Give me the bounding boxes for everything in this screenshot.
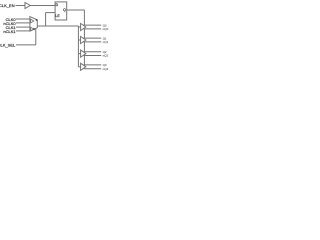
wire CLK_EN to buffer — [16, 5, 26, 7]
net label Q0 — [103, 23, 107, 27]
svg-text:CLK_SEL: CLK_SEL — [0, 43, 16, 48]
net label nQ0 — [103, 27, 109, 31]
wire CLK_SEL horizontal — [16, 44, 36, 46]
net label nCLK0 — [3, 21, 16, 26]
wire nQ1 output — [84, 41, 102, 43]
svg-text:nQ2: nQ2 — [103, 54, 109, 58]
net label Q1 — [103, 36, 107, 40]
driver U4 triangle — [81, 23, 86, 30]
wire nQ0 output — [84, 28, 102, 30]
receiver A inside mux — [31, 19, 34, 23]
wire stub to driver 3 — [78, 53, 80, 55]
mux input 0 label — [36, 18, 38, 22]
wire nCLK0 to mux — [16, 22, 30, 24]
net label CLK0 — [6, 17, 17, 22]
net label nCLK1 — [3, 29, 16, 34]
wire Q2 output — [84, 51, 102, 53]
net label nQ1 — [103, 40, 109, 44]
net label nQ2 — [103, 54, 109, 58]
wire clock bus vertical — [77, 26, 79, 67]
svg-text:nCLK1: nCLK1 — [3, 29, 16, 34]
net label CLK_EN — [0, 3, 15, 8]
wire CLK1 to mux — [16, 26, 30, 28]
mux U2 trapezoid — [30, 17, 37, 31]
driver U6 triangle — [81, 50, 86, 57]
receiver B inside mux — [31, 27, 34, 31]
svg-text:nQ3: nQ3 — [103, 67, 109, 71]
latch pin Q label — [63, 8, 66, 12]
wire latch Q output horizontal — [67, 9, 85, 11]
latch pin D label — [56, 3, 59, 7]
net label CLK_SEL — [0, 43, 16, 48]
latch U3 box — [55, 2, 67, 20]
wire Q0 output — [84, 24, 102, 26]
svg-text:nQ0: nQ0 — [103, 27, 109, 31]
svg-text:nQ1: nQ1 — [103, 40, 109, 44]
wire nQ3 output — [84, 68, 102, 70]
buffer U1 (CLK_EN input buffer) — [25, 3, 30, 9]
wire mux output to bus corner — [37, 25, 78, 27]
svg-text:CLK_EN: CLK_EN — [0, 3, 15, 8]
wire CLK_SEL vertical into mux select — [35, 28, 37, 45]
driver U5 triangle — [81, 36, 86, 43]
net label CLK1 — [6, 25, 17, 30]
wire nQ2 output — [84, 55, 102, 57]
svg-text:Q: Q — [63, 8, 66, 12]
wire stub to driver 4 — [78, 66, 80, 68]
driver U7 triangle — [81, 63, 86, 70]
wire Q3 output — [84, 64, 102, 66]
svg-text:LE: LE — [55, 14, 60, 18]
mux input 1 label — [33, 27, 35, 31]
net label nQ3 — [103, 67, 109, 71]
wire nCLK1 to mux — [16, 30, 30, 32]
wire enable vertical down to drivers — [83, 10, 85, 66]
net label Q3 — [103, 63, 107, 67]
wire LE branch vertical — [45, 13, 47, 26]
net label Q2 — [103, 50, 107, 54]
wire buffer to latch D input — [30, 5, 55, 7]
wire CLK0 to mux — [16, 18, 30, 20]
wire stub to driver 1 — [78, 26, 80, 28]
wire Q1 output — [84, 37, 102, 39]
wire stub to driver 2 — [78, 39, 80, 41]
wire LE branch horizontal into latch — [46, 12, 56, 14]
latch pin LE label — [55, 14, 60, 18]
